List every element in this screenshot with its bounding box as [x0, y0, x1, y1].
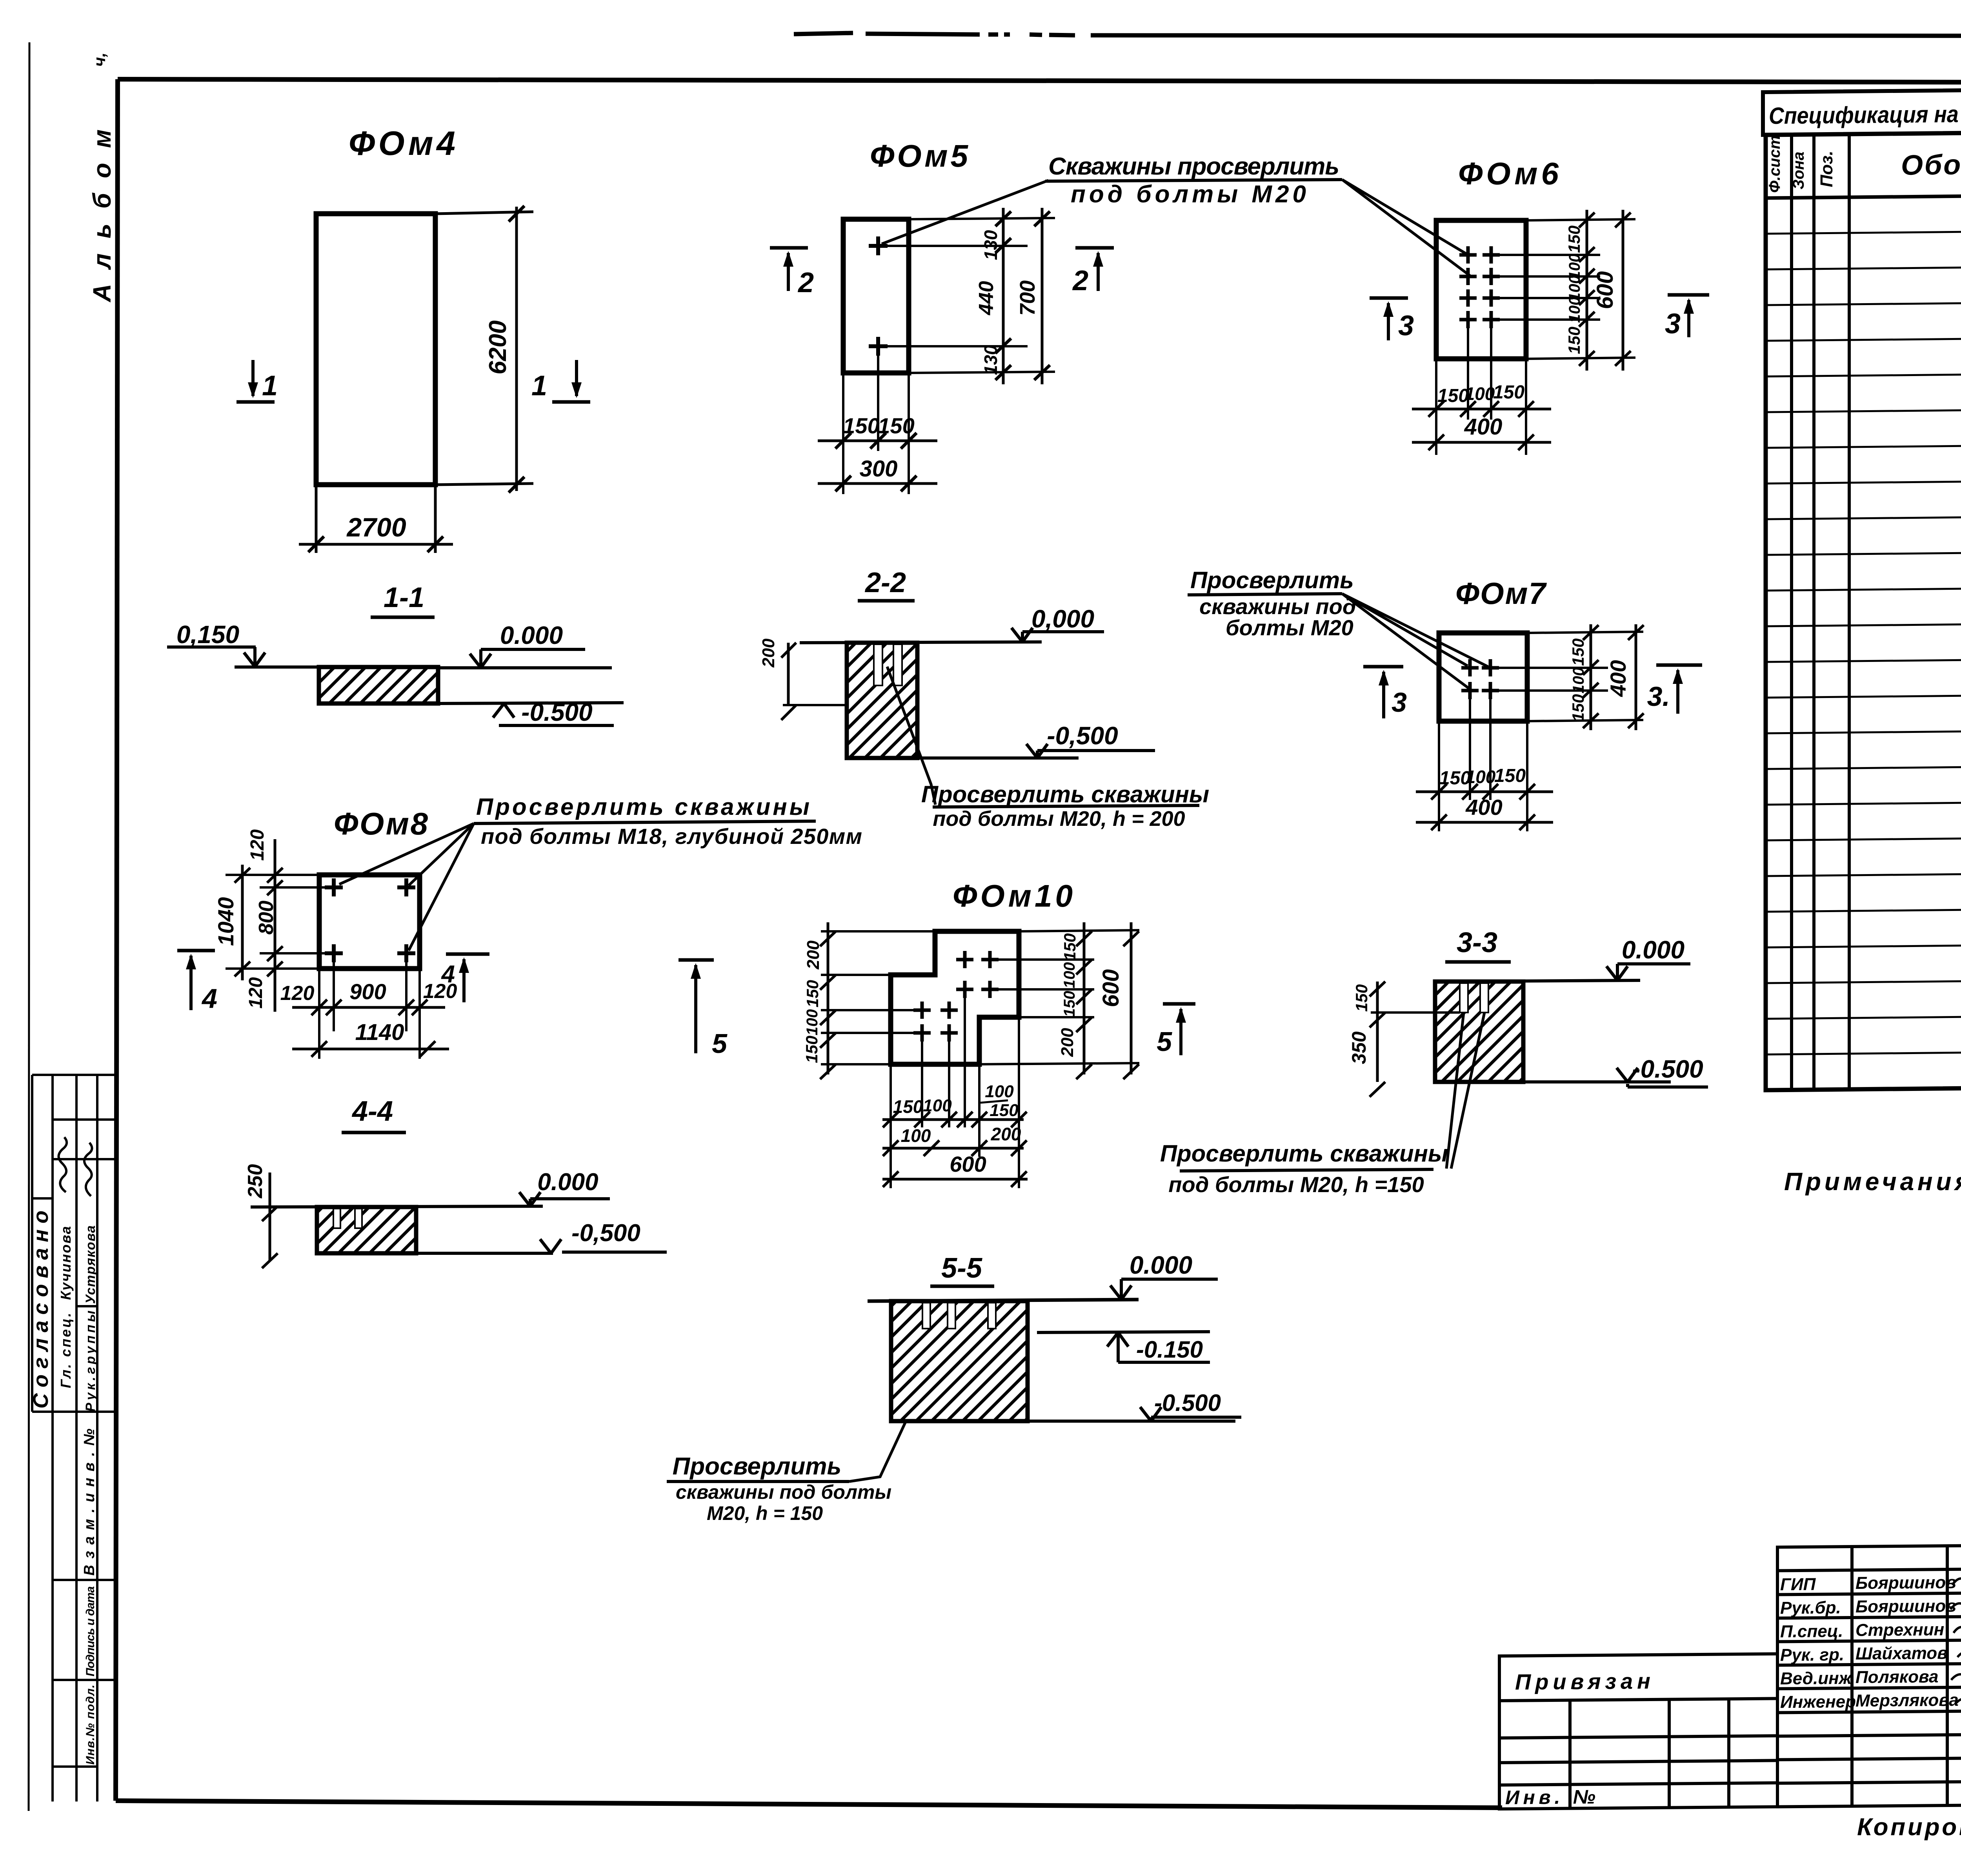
FOm10 stepped outline	[891, 931, 1019, 1064]
svg-text:120: 120	[246, 977, 266, 1009]
dim line 120 900 120	[292, 1006, 445, 1009]
section mark 4 right	[446, 953, 489, 956]
svg-text:5-5: 5-5	[941, 1252, 982, 1284]
svg-text:3: 3	[1665, 308, 1681, 340]
svg-text:М20, h = 150: М20, h = 150	[707, 1502, 823, 1524]
svg-text:Вед.инж: Вед.инж	[1780, 1669, 1853, 1688]
svg-text:Поз.: Поз.	[1817, 151, 1836, 187]
elevation -0.150	[1037, 1332, 1210, 1332]
svg-text:100: 100	[1465, 384, 1495, 404]
svg-text:400: 400	[1606, 660, 1630, 697]
svg-text:300: 300	[860, 456, 898, 482]
section mark 5 left	[679, 958, 714, 962]
leader to note 5-5	[849, 1423, 905, 1482]
svg-text:4: 4	[201, 983, 217, 1014]
svg-text:120: 120	[247, 829, 268, 861]
left dim 200	[783, 704, 847, 706]
svg-text:3-3: 3-3	[1457, 927, 1497, 958]
svg-text:Гл. спец.: Гл. спец.	[58, 1313, 74, 1388]
leader to note 3-3	[1446, 1013, 1464, 1169]
right dim line 150/100/150/200	[1083, 922, 1086, 1074]
spec column lines	[1792, 128, 1961, 1090]
dim line 1040	[241, 865, 244, 980]
drilled hole slots	[874, 644, 882, 685]
FOm4 dim line 2700	[315, 485, 318, 553]
svg-text:100: 100	[804, 1009, 821, 1036]
svg-text:0.000: 0.000	[500, 621, 563, 649]
bottom dim row B 100 / 200	[882, 1147, 1024, 1150]
right extensions	[1019, 930, 1139, 931]
dim line 400	[1412, 441, 1551, 444]
FOm7 outline	[1439, 633, 1527, 721]
svg-text:под болты М18, глубиной 250мм: под болты М18, глубиной 250мм	[481, 824, 862, 849]
svg-text:4: 4	[441, 961, 455, 988]
section mark 1 right	[552, 400, 590, 404]
bottom extensions	[1467, 328, 1469, 420]
bottom extensions	[890, 1064, 892, 1188]
svg-text:0.000: 0.000	[537, 1169, 598, 1196]
svg-text:под болты М20, h = 200: под болты М20, h = 200	[933, 807, 1185, 831]
dim line 400	[1635, 624, 1637, 730]
svg-text:1: 1	[262, 370, 278, 402]
svg-text:120: 120	[280, 982, 315, 1005]
svg-text:Инв.№ подл.: Инв.№ подл.	[84, 1685, 97, 1765]
vertical text Album	[88, 53, 116, 303]
svg-text:Обозначение: Обозначение	[1901, 148, 1961, 181]
svg-text:200: 200	[1058, 1028, 1077, 1057]
FOm4 extension lines	[435, 212, 533, 214]
svg-text:150: 150	[1061, 933, 1079, 961]
section mark 4 left	[177, 949, 215, 953]
svg-text:под болты М20, h =150: под болты М20, h =150	[1168, 1172, 1424, 1197]
svg-text:6200: 6200	[484, 320, 511, 374]
dim line 150 100 150	[1412, 408, 1551, 411]
section mark 3 right	[1668, 293, 1709, 297]
svg-text:150: 150	[990, 1101, 1019, 1120]
svg-text:150: 150	[1565, 327, 1583, 354]
svg-text:150: 150	[803, 980, 822, 1007]
dim line 1140	[292, 1048, 449, 1051]
bolt crosses FOm7	[1461, 659, 1499, 676]
section mark 2 left	[770, 246, 808, 250]
FOm4 slab outline	[316, 214, 435, 485]
svg-text:150: 150	[1437, 385, 1469, 406]
svg-text:-0,500: -0,500	[571, 1220, 640, 1247]
left stamp texts	[29, 1137, 98, 1765]
svg-text:болты М20: болты М20	[1226, 615, 1353, 640]
dim line 120/800/120	[274, 839, 277, 1012]
svg-text:5: 5	[712, 1028, 728, 1059]
svg-text:1-1: 1-1	[384, 582, 424, 613]
svg-text:100: 100	[923, 1096, 952, 1115]
dim line 150 150	[818, 440, 937, 442]
svg-text:Зона: Зона	[1790, 151, 1807, 189]
bolt row extension lines	[878, 245, 1028, 247]
bottom extensions	[333, 962, 335, 1031]
svg-text:Скважины просверлить: Скважины просверлить	[1048, 153, 1339, 180]
svg-text:130: 130	[980, 345, 1001, 375]
section mark 5 right	[1163, 1002, 1195, 1006]
spec header row line	[1766, 191, 1961, 198]
frame bottom border	[116, 1801, 1502, 1808]
svg-text:0,000: 0,000	[1031, 605, 1094, 633]
svg-text:100: 100	[1566, 297, 1583, 323]
svg-text:Мерзлякова: Мерзлякова	[1855, 1691, 1959, 1711]
svg-text:-0.150: -0.150	[1136, 1336, 1203, 1363]
hatched pier 5-5	[891, 1301, 1028, 1421]
frame top border upper dashed-solid line	[794, 33, 1961, 36]
svg-text:П.спец.: П.спец.	[1780, 1622, 1843, 1641]
svg-text:150: 150	[893, 1096, 923, 1117]
svg-text:200: 200	[991, 1124, 1021, 1144]
dim line 130/440/130	[1002, 208, 1005, 384]
svg-text:100: 100	[1061, 962, 1078, 989]
svg-text:100: 100	[901, 1125, 931, 1146]
svg-text:3: 3	[1392, 687, 1407, 718]
hatched pier 3-3	[1435, 982, 1523, 1082]
dim line 600	[1622, 210, 1624, 371]
svg-text:Просверлить: Просверлить	[673, 1453, 842, 1480]
svg-text:ФОм6: ФОм6	[1458, 156, 1559, 191]
svg-text:Просверлить скважины: Просверлить скважины	[921, 781, 1209, 807]
svg-text:-0,500: -0,500	[1047, 722, 1118, 750]
spec row lines	[1766, 226, 1961, 1054]
svg-text:3: 3	[1398, 310, 1414, 342]
dim line 300	[818, 482, 937, 485]
drilled hole slots 4-4	[333, 1209, 340, 1228]
svg-text:Просверлить скважины: Просверлить скважины	[1160, 1140, 1448, 1167]
bolt crosses FOm10 upper group	[956, 951, 999, 968]
svg-text:200: 200	[759, 638, 778, 668]
svg-text:150: 150	[878, 413, 914, 438]
svg-text:Рук.бр.: Рук.бр.	[1780, 1598, 1841, 1618]
svg-text:1140: 1140	[355, 1020, 404, 1045]
bolt crosses FOm6 (2 cols x 4 rows)	[1459, 246, 1500, 264]
FOm8 outline	[319, 875, 420, 969]
svg-text:800: 800	[255, 901, 278, 935]
frame left border	[116, 79, 118, 1801]
svg-text:400: 400	[1465, 795, 1502, 820]
dim line 150/100x3/150	[1586, 210, 1588, 371]
signature table grid	[1777, 1545, 1961, 1807]
left extensions	[821, 930, 935, 933]
left extensions	[226, 874, 319, 876]
leader lines to FOm6 bolts	[1342, 180, 1467, 254]
svg-text:150: 150	[1565, 225, 1583, 253]
svg-text:Просверлить скважины: Просверлить скважины	[476, 794, 810, 820]
frame top border lower line	[118, 79, 1961, 83]
left margin thin line	[29, 42, 29, 1811]
elevation -0.500	[438, 703, 624, 703]
svg-text:130: 130	[980, 230, 1001, 260]
svg-text:ГИП: ГИП	[1780, 1575, 1816, 1594]
svg-text:ч,: ч,	[90, 53, 109, 67]
dim line 700	[1041, 208, 1044, 384]
bottom extensions	[1469, 699, 1471, 800]
leader lines to bolts	[339, 823, 474, 884]
leader to note	[887, 667, 935, 805]
svg-text:Бояршинов: Бояршинов	[1855, 1573, 1956, 1593]
svg-text:ФОм4: ФОм4	[349, 125, 455, 162]
svg-text:150: 150	[1352, 984, 1371, 1012]
svg-text:Инв. №: Инв. №	[1505, 1786, 1595, 1809]
svg-text:600: 600	[950, 1152, 986, 1176]
svg-text:150: 150	[1061, 991, 1078, 1017]
bolt crosses FOm8	[325, 878, 343, 896]
left stamp table	[32, 1075, 116, 1801]
svg-text:700: 700	[1016, 280, 1039, 316]
svg-text:1040: 1040	[213, 897, 238, 946]
bolt crosses FOm10 lower group	[913, 1002, 958, 1019]
svg-text:100: 100	[1466, 767, 1496, 787]
svg-text:-0.500: -0.500	[1154, 1390, 1221, 1416]
left dim line 200/150/100/150	[827, 922, 830, 1074]
svg-text:150: 150	[1493, 382, 1524, 403]
dim line 400 bottom	[1416, 821, 1553, 824]
leader lines to FOm5 bolt	[882, 180, 1048, 244]
svg-text:Согласовано: Согласовано	[29, 1211, 53, 1409]
svg-text:1: 1	[531, 370, 547, 402]
svg-text:250: 250	[244, 1164, 267, 1199]
svg-text:Стрехнин: Стрехнин	[1855, 1620, 1944, 1640]
drilled hole slots 5-5	[922, 1303, 930, 1329]
svg-text:ФОм7: ФОм7	[1455, 576, 1547, 611]
section mark 1 left	[236, 400, 275, 404]
leaders to bolts	[1342, 594, 1468, 666]
svg-text:2: 2	[1072, 265, 1088, 296]
bottom dim row C 600	[882, 1178, 1028, 1181]
hatched slab 4-4	[317, 1207, 416, 1253]
section mark 3 right (FOm7)	[1656, 664, 1702, 667]
svg-text:Рук. гр.: Рук. гр.	[1780, 1645, 1844, 1665]
signatures squiggles	[1950, 1574, 1961, 1704]
FOm5 outline	[843, 219, 909, 373]
bolt crosses FOm5	[869, 236, 888, 255]
svg-text:Бояршинов: Бояршинов	[1855, 1596, 1956, 1616]
section mark 2 right	[1075, 246, 1114, 250]
svg-text:Просверлить: Просверлить	[1190, 567, 1354, 593]
svg-text:Рук.группы: Рук.группы	[83, 1311, 98, 1412]
FOm6 outline	[1436, 220, 1526, 359]
svg-text:ФОм8: ФОм8	[334, 806, 428, 841]
svg-text:Привязан: Привязан	[1515, 1669, 1650, 1694]
svg-text:600: 600	[1592, 271, 1618, 309]
drilled hole slots 3-3	[1460, 983, 1468, 1013]
svg-text:3.: 3.	[1647, 681, 1670, 712]
svg-text:0,150: 0,150	[176, 620, 239, 649]
svg-text:Инженер: Инженер	[1780, 1692, 1856, 1712]
right dim line 600	[1130, 922, 1133, 1074]
privjazan table	[1499, 1654, 1777, 1809]
svg-text:-0.500: -0.500	[1632, 1055, 1703, 1083]
bolt row extensions right	[1491, 254, 1600, 256]
svg-text:150: 150	[802, 1036, 821, 1063]
svg-text:Полякова: Полякова	[1855, 1667, 1938, 1687]
spec title box	[1763, 85, 1961, 135]
svg-text:100: 100	[985, 1082, 1014, 1101]
hatched pier 2-2	[847, 643, 917, 758]
svg-text:2-2: 2-2	[864, 567, 906, 598]
bolt row extensions	[1490, 667, 1608, 669]
svg-text:-0.500: -0.500	[521, 698, 592, 726]
svg-text:Подпись и дата: Подпись и дата	[84, 1586, 97, 1676]
svg-text:2: 2	[797, 267, 814, 298]
svg-text:5: 5	[1157, 1026, 1172, 1057]
svg-text:600: 600	[1098, 969, 1124, 1007]
svg-text:150: 150	[1569, 638, 1587, 666]
svg-text:4-4: 4-4	[351, 1096, 393, 1127]
bottom extensions	[842, 373, 844, 494]
signature table texts	[1780, 1573, 1959, 1712]
svg-text:150: 150	[1569, 694, 1587, 722]
left dims 150 / 350	[1371, 1011, 1460, 1014]
svg-text:440: 440	[975, 281, 998, 316]
svg-text:100: 100	[1570, 667, 1587, 694]
svg-text:150: 150	[843, 413, 879, 438]
bottom dim row A 150 100 100/150	[882, 1118, 1024, 1121]
svg-text:400: 400	[1464, 414, 1503, 440]
FOm4 dim line 6200	[515, 207, 518, 491]
svg-text:скважины под болты: скважины под болты	[676, 1481, 891, 1503]
svg-text:350: 350	[1348, 1031, 1370, 1064]
svg-text:Устрякова: Устрякова	[83, 1225, 98, 1304]
svg-text:150: 150	[1494, 765, 1526, 786]
svg-text:900: 900	[349, 979, 386, 1004]
svg-text:0.000: 0.000	[1622, 936, 1684, 964]
section mark 3 left	[1370, 296, 1408, 300]
svg-text:2700: 2700	[346, 513, 406, 542]
dim line 150 100 150 bottom	[1416, 791, 1553, 793]
svg-text:Ф.сист: Ф.сист	[1766, 135, 1783, 193]
svg-text:0.000: 0.000	[1130, 1251, 1192, 1279]
section 1-1 hatched slab	[319, 667, 438, 703]
section mark 3 left (FOm7)	[1363, 665, 1403, 669]
svg-text:200: 200	[804, 940, 823, 970]
svg-text:ФОм5: ФОм5	[870, 138, 969, 173]
dim line 150/100/150	[1590, 624, 1592, 730]
svg-text:Шайхатов: Шайхатов	[1855, 1643, 1948, 1663]
spec table outer box	[1766, 127, 1961, 1090]
